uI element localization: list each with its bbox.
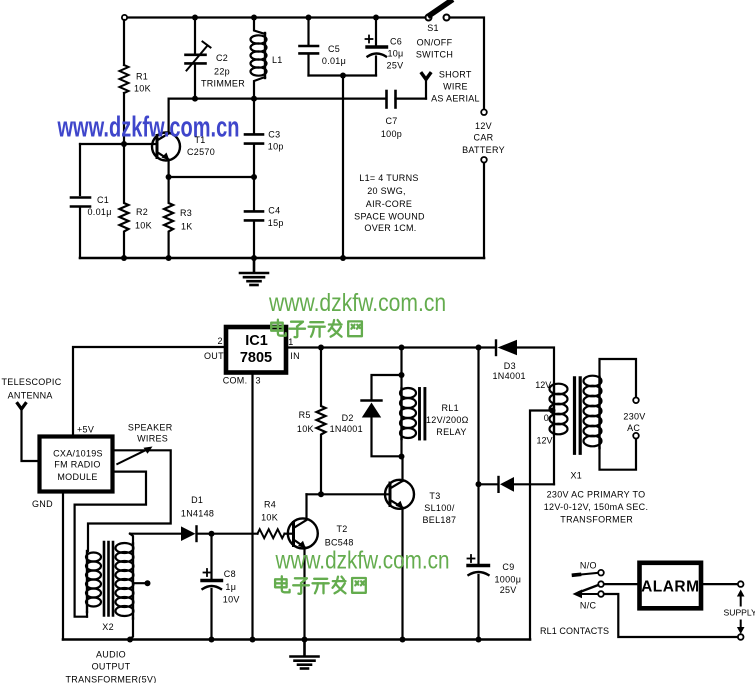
svg-text:BATTERY: BATTERY <box>462 145 505 155</box>
mains terminal top circle <box>633 398 639 404</box>
alarm box <box>640 563 702 609</box>
svg-text:10K: 10K <box>135 220 152 230</box>
svg-text:SUPPLY: SUPPLY <box>724 608 755 618</box>
svg-text:R2: R2 <box>136 207 148 217</box>
capacitor C4 <box>245 177 263 258</box>
svg-text:25V: 25V <box>500 585 517 595</box>
resistor R4 <box>258 529 285 538</box>
svg-text:SL100/: SL100/ <box>424 503 455 513</box>
svg-text:C3: C3 <box>268 129 280 139</box>
X2 centre tap with end dot <box>133 580 151 586</box>
relay contact common pole <box>573 581 604 598</box>
svg-text:10K: 10K <box>297 424 314 434</box>
wire R4 to T2 base <box>285 533 294 535</box>
resistor R1 <box>120 65 129 93</box>
node C9 ground dot <box>476 637 482 643</box>
svg-text:12V: 12V <box>475 121 492 131</box>
svg-text:ON/OFF: ON/OFF <box>417 38 453 48</box>
resistor R3 <box>164 177 173 258</box>
transformer X2 primary coil <box>86 551 101 617</box>
wire C1 left branch down <box>79 144 81 195</box>
wire rectified supply column <box>477 348 479 564</box>
wire X1 primary top to mains terminal <box>600 359 637 398</box>
node R3 bottom dot <box>166 255 172 261</box>
antenna symbol telescopic <box>18 404 26 410</box>
node T2 collector T3 base junction dot <box>318 491 324 497</box>
svg-text:RL1 CONTACTS: RL1 CONTACTS <box>540 626 609 636</box>
wire T2 emitter to ground rail <box>303 549 305 640</box>
svg-text:T3: T3 <box>429 491 440 501</box>
svg-text:1μ: 1μ <box>225 582 236 592</box>
wire X2 secondary top to D1 <box>130 534 133 544</box>
svg-text:RELAY: RELAY <box>436 427 466 437</box>
node C3 C4 junction dot <box>251 174 257 180</box>
wire emitter rail to C3C4 <box>169 176 254 178</box>
svg-text:COM.: COM. <box>223 376 248 386</box>
svg-text:C7: C7 <box>385 116 397 126</box>
svg-text:AUDIO: AUDIO <box>96 650 126 660</box>
switch S1 <box>426 1 451 21</box>
wire IC1 COM pin3 to ground rail <box>251 373 253 640</box>
node C2 bottom dot <box>192 96 198 102</box>
speaker wires arrow <box>117 447 152 465</box>
capacitor C9 <box>468 555 489 640</box>
wire T3 emitter to ground rail <box>401 509 403 640</box>
svg-text:AIR-CORE: AIR-CORE <box>366 199 412 209</box>
svg-text:C8: C8 <box>224 569 236 579</box>
svg-text:WIRE: WIRE <box>443 81 468 91</box>
svg-text:C2570: C2570 <box>187 147 215 157</box>
diode D3 <box>496 340 554 384</box>
transistor T1 <box>152 133 180 161</box>
wire top supply rail <box>124 16 426 18</box>
svg-text:IC1: IC1 <box>245 333 268 349</box>
supply terminal bottom circle <box>738 634 744 640</box>
node C6 top dot <box>373 15 379 21</box>
svg-text:OUT: OUT <box>204 351 224 361</box>
ground symbol bottom circuit <box>291 640 319 669</box>
svg-text:+5V: +5V <box>77 425 94 435</box>
svg-text:R5: R5 <box>299 410 311 420</box>
svg-text:C6: C6 <box>390 36 402 46</box>
svg-text:R1: R1 <box>136 72 148 82</box>
node C4 bottom dot <box>251 255 257 261</box>
node L1 bottom dot <box>251 96 257 102</box>
capacitor C6 <box>366 18 387 76</box>
svg-text:SWITCH: SWITCH <box>416 50 453 60</box>
svg-text:WIRES: WIRES <box>137 433 168 443</box>
svg-text:TELESCOPIC: TELESCOPIC <box>2 377 62 387</box>
svg-text:L1: L1 <box>272 55 283 65</box>
battery terminal top circle <box>481 109 487 115</box>
mains terminal bottom circle <box>633 433 639 439</box>
ground symbol top circuit <box>240 258 268 285</box>
svg-text:10V: 10V <box>223 594 240 604</box>
wire decoupling column to ground rail <box>342 76 344 259</box>
wire T3 collector lead <box>401 457 403 482</box>
transistor T2 <box>288 518 318 548</box>
svg-text:www.dzkfw.com.cn: www.dzkfw.com.cn <box>57 111 240 144</box>
node R5 top dot <box>318 345 324 351</box>
svg-text:R3: R3 <box>180 208 192 218</box>
FM radio module U2 box <box>40 437 113 492</box>
diode D2 freewheel <box>362 375 402 456</box>
wire base rail C1 to T1 base <box>80 143 156 145</box>
supply terminal top circle <box>738 581 744 587</box>
svg-text:L1= 4 TURNS: L1= 4 TURNS <box>359 173 418 183</box>
node X2 ground dot <box>127 637 133 643</box>
resistor R2 <box>120 144 129 258</box>
svg-text:20 SWG,: 20 SWG, <box>367 186 406 196</box>
node relay D2 bottom dot <box>399 454 405 460</box>
svg-text:12V-0-12V, 150mA SEC.: 12V-0-12V, 150mA SEC. <box>544 502 649 512</box>
svg-text:OVER 1CM.: OVER 1CM. <box>364 223 416 233</box>
node decoupling ground dot <box>340 255 346 261</box>
svg-text:100p: 100p <box>381 129 402 139</box>
svg-text:1000μ: 1000μ <box>495 574 522 584</box>
svg-text:10p: 10p <box>268 141 284 151</box>
svg-text:0.01μ: 0.01μ <box>322 56 346 66</box>
svg-text:IN: IN <box>290 351 300 361</box>
svg-text:D2: D2 <box>342 413 354 423</box>
wire alarm to supply top <box>701 583 738 585</box>
wire module GND lead <box>62 492 64 640</box>
node C8 top dot <box>209 531 215 537</box>
node relay D2 top dot <box>399 372 405 378</box>
svg-text:OUTPUT: OUTPUT <box>92 661 131 671</box>
relay contact NO terminal <box>574 570 604 576</box>
svg-text:3: 3 <box>256 376 261 386</box>
supply arrow down <box>737 621 745 635</box>
wire bottom ground rail top circuit <box>80 257 484 260</box>
wire battery to ground rail <box>483 163 485 258</box>
battery terminal bottom circle <box>481 157 487 163</box>
svg-text:T2: T2 <box>337 524 348 534</box>
IC regulator U-IC1 box <box>226 327 286 373</box>
svg-text:TRIMMER: TRIMMER <box>201 78 245 88</box>
watermark green cjk upper <box>271 320 362 338</box>
svg-text:AS AERIAL: AS AERIAL <box>431 93 480 103</box>
svg-text:C5: C5 <box>328 44 340 54</box>
svg-text:R4: R4 <box>264 500 276 510</box>
svg-text:C9: C9 <box>502 562 514 572</box>
svg-text:N/O: N/O <box>580 561 597 571</box>
wire left column to R1 <box>123 20 125 65</box>
svg-text:10μ: 10μ <box>387 49 403 59</box>
watermark green cjk lower <box>275 576 366 594</box>
svg-text:C2: C2 <box>216 53 228 63</box>
wire C1 bottom to ground rail <box>79 208 81 258</box>
transformer X2 secondary coil <box>116 543 134 619</box>
node T2 emitter ground dot <box>302 637 308 643</box>
svg-text:S1: S1 <box>427 23 439 33</box>
node X1 centre tap dot <box>550 408 556 414</box>
svg-text:N/C: N/C <box>580 600 597 610</box>
svg-text:RL1: RL1 <box>442 403 459 413</box>
resistor R5 <box>317 348 326 495</box>
wire T2 collector elbow to T3 base <box>307 493 391 495</box>
svg-text:15p: 15p <box>268 218 284 228</box>
wire IC1 IN rail <box>286 346 496 348</box>
wire NC to supply bottom <box>604 594 738 637</box>
wire speaker wire lower <box>75 472 146 617</box>
transformer X1 primary coil <box>584 376 602 448</box>
svg-text:2: 2 <box>218 336 223 346</box>
node emitter dot <box>166 174 172 180</box>
node top-left corner terminal <box>122 15 127 20</box>
transformer X1 core <box>575 378 581 454</box>
wire X1 centre tap to zero volt column <box>530 411 553 640</box>
svg-text:C4: C4 <box>268 205 280 215</box>
svg-text:10K: 10K <box>134 84 151 94</box>
svg-text:www.dzkfw.com.cn: www.dzkfw.com.cn <box>268 289 446 317</box>
svg-text:12V: 12V <box>535 380 551 390</box>
svg-text:SHORT: SHORT <box>439 70 472 80</box>
svg-text:25V: 25V <box>387 61 404 71</box>
svg-text:X2: X2 <box>102 622 114 632</box>
svg-text:ANTENNA: ANTENNA <box>8 391 53 401</box>
svg-text:TRANSFORMER(5V): TRANSFORMER(5V) <box>65 674 156 683</box>
capacitor C8 <box>202 534 222 640</box>
svg-text:C1: C1 <box>97 195 109 205</box>
svg-text:1N4001: 1N4001 <box>493 371 526 381</box>
svg-text:FM RADIO: FM RADIO <box>54 459 100 469</box>
wire collector tank rail <box>169 97 386 99</box>
wire antenna to module <box>22 409 40 461</box>
svg-text:CAR: CAR <box>474 133 494 143</box>
capacitor C2 trimmer <box>186 18 211 99</box>
transformer X1 secondary coil <box>550 384 568 485</box>
supply arrow up <box>737 590 745 606</box>
wire IC1 OUT to +5V column <box>73 347 226 437</box>
wire speaker wire upper <box>88 450 171 551</box>
svg-text:0.01μ: 0.01μ <box>88 207 112 217</box>
node L1 top dot <box>251 15 257 21</box>
capacitor C7 <box>387 91 427 108</box>
node D3 cathode rail dot <box>476 345 482 351</box>
wire T2 collector lead <box>305 494 307 519</box>
node C5 top dot <box>306 15 312 21</box>
svg-text:CXA/1019S: CXA/1019S <box>53 449 103 459</box>
wire R1 bottom to base node <box>123 93 125 144</box>
svg-text:AC: AC <box>627 423 640 433</box>
capacitor C3 <box>245 99 263 177</box>
wire pole to alarm <box>604 583 640 585</box>
svg-text:SPACE WOUND: SPACE WOUND <box>354 211 425 221</box>
node R2 bottom dot <box>121 255 127 261</box>
wire C5 C6 bottom rail <box>309 74 377 76</box>
transformer X2 core <box>104 542 113 616</box>
node T3 emitter ground dot <box>400 637 406 643</box>
svg-text:GND: GND <box>32 499 53 509</box>
svg-text:7805: 7805 <box>240 350 272 366</box>
node decoupling junction dot <box>340 73 346 79</box>
wire T1 collector lead <box>168 99 170 133</box>
svg-text:1N4148: 1N4148 <box>181 508 214 518</box>
relay coil RL1 <box>400 348 416 457</box>
node D4 anode rail dot <box>476 481 482 487</box>
svg-text:1K: 1K <box>181 222 193 232</box>
aerial arrow symbol <box>422 74 430 80</box>
svg-text:www.dzkfw.com.cn: www.dzkfw.com.cn <box>275 546 450 574</box>
aerial stub wire <box>425 80 427 99</box>
node IC1 pin3 ground dot <box>250 637 256 643</box>
svg-text:22p: 22p <box>214 67 230 77</box>
node relay top dot <box>399 345 405 351</box>
svg-text:TRANSFORMER: TRANSFORMER <box>560 515 633 525</box>
svg-text:0: 0 <box>544 413 549 423</box>
capacitor C1 <box>71 198 90 207</box>
svg-text:230V: 230V <box>623 411 645 421</box>
svg-text:D1: D1 <box>191 495 203 505</box>
wire bottom ground rail lower circuit <box>63 638 530 641</box>
svg-text:X1: X1 <box>571 471 583 481</box>
capacitor C5 <box>300 18 319 76</box>
wire T1 emitter lead <box>168 160 170 177</box>
svg-text:D3: D3 <box>504 361 516 371</box>
svg-text:1: 1 <box>288 337 293 347</box>
svg-text:12V/200Ω: 12V/200Ω <box>426 415 469 425</box>
node base junction dot <box>121 141 127 147</box>
svg-text:MODULE: MODULE <box>57 472 97 482</box>
wire X2 secondary bottom to ground rail <box>130 619 133 640</box>
svg-text:ALARM: ALARM <box>641 579 699 596</box>
node C8 ground dot <box>209 637 215 643</box>
wire S1 to battery corner <box>450 18 485 110</box>
transistor T3 <box>385 480 414 509</box>
node C2 top dot <box>192 15 198 21</box>
svg-text:10K: 10K <box>261 513 278 523</box>
diode D4 <box>479 477 555 492</box>
svg-text:SPEAKER: SPEAKER <box>128 423 173 433</box>
svg-text:1N4001: 1N4001 <box>330 424 363 434</box>
diode D1 <box>130 526 197 541</box>
inductor L1 <box>251 18 267 99</box>
relay contact NC terminal <box>598 591 604 597</box>
relay core bars <box>420 389 425 440</box>
svg-text:12V: 12V <box>537 435 553 445</box>
svg-text:BEL187: BEL187 <box>423 515 457 525</box>
wire X1 primary bottom to mains terminal <box>600 439 637 470</box>
wire D1 cathode to R4 <box>197 533 258 535</box>
svg-text:230V AC PRIMARY TO: 230V AC PRIMARY TO <box>547 490 646 500</box>
